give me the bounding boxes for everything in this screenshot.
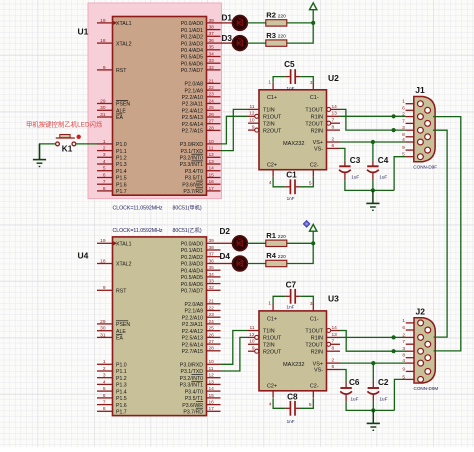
wire R1 to power rail [287, 242, 313, 244]
svg-text:P1.5: P1.5 [116, 396, 127, 402]
svg-text:RST: RST [116, 68, 127, 74]
svg-text:C2-: C2- [310, 384, 319, 390]
svg-text:8: 8 [402, 132, 405, 138]
svg-text:P0.7/AD7: P0.7/AD7 [181, 289, 203, 295]
svg-text:26: 26 [209, 332, 215, 338]
svg-text:17: 17 [209, 406, 215, 412]
svg-text:VS+: VS+ [313, 140, 323, 146]
svg-text:R1OUT: R1OUT [263, 115, 282, 121]
svg-text:1: 1 [103, 359, 106, 365]
svg-text:38: 38 [209, 25, 215, 31]
svg-text:P1.6: P1.6 [116, 403, 127, 409]
junction [392, 349, 396, 353]
svg-text:P2.6/A14: P2.6/A14 [182, 122, 203, 128]
svg-text:23: 23 [209, 312, 215, 318]
svg-text:P0.6/AD6: P0.6/AD6 [181, 61, 203, 67]
svg-text:P2.1/A9: P2.1/A9 [185, 88, 204, 94]
svg-text:36: 36 [209, 258, 215, 264]
svg-text:VS-: VS- [314, 147, 323, 153]
svg-text:24: 24 [209, 319, 215, 325]
svg-text:XTAL1: XTAL1 [116, 242, 132, 248]
wire D2 to R1 [247, 242, 266, 244]
svg-text:P2.6/A14: P2.6/A14 [182, 342, 203, 348]
wire VS+ tap to C2 [372, 363, 374, 382]
LED D2 [220, 227, 248, 251]
wire U2 pin1 to C5 [273, 77, 286, 83]
svg-text:XTAL2: XTAL2 [116, 262, 132, 268]
junction [371, 361, 375, 365]
svg-text:D1: D1 [222, 13, 233, 22]
wire J1 pin3 to J2 pin2 [433, 130, 447, 337]
svg-text:R1IN: R1IN [311, 336, 323, 342]
svg-text:T1IN: T1IN [263, 329, 275, 335]
svg-text:2: 2 [103, 146, 106, 152]
svg-text:XTAL1: XTAL1 [116, 21, 132, 27]
wire ground rail bottom [346, 402, 394, 411]
svg-text:9: 9 [402, 366, 405, 372]
svg-text:R2OUT: R2OUT [263, 349, 282, 355]
wire U3 VS+ to J2 pin4 [340, 362, 406, 364]
svg-text:P0.4/AD4: P0.4/AD4 [181, 48, 203, 54]
junction [371, 408, 375, 412]
ground [367, 410, 380, 430]
svg-text:1: 1 [402, 99, 405, 105]
microcontroller U4 80C51 [78, 226, 221, 416]
svg-text:1: 1 [268, 79, 271, 85]
svg-text:P1.7: P1.7 [116, 189, 127, 195]
wire R4 to power [287, 231, 313, 263]
junction [311, 21, 315, 25]
svg-text:14: 14 [332, 104, 338, 110]
svg-text:P1.4: P1.4 [116, 389, 127, 395]
svg-text:1uF: 1uF [380, 396, 388, 401]
svg-text:6: 6 [103, 172, 106, 178]
wire U2 pin4 to C1 [273, 177, 285, 187]
svg-text:2: 2 [332, 136, 335, 142]
svg-text:220: 220 [278, 34, 286, 40]
svg-text:MAX232: MAX232 [283, 362, 304, 368]
wire C8 to U3 pin5 [300, 398, 314, 408]
svg-text:5: 5 [103, 386, 106, 392]
push button K1 [56, 135, 81, 154]
svg-text:P0.2/AD2: P0.2/AD2 [181, 35, 203, 41]
wire D1 to R2 [247, 22, 266, 24]
svg-text:PSEN: PSEN [116, 102, 130, 108]
svg-text:14: 14 [209, 386, 215, 392]
no-ERC marker [303, 221, 310, 228]
wire K1 to U1 P1.0 [76, 143, 97, 145]
svg-text:P3.4/T0: P3.4/T0 [185, 389, 203, 395]
svg-text:9: 9 [252, 125, 255, 131]
svg-text:3: 3 [103, 373, 106, 379]
svg-text:P2.7/A15: P2.7/A15 [182, 349, 203, 355]
svg-text:P0.0/AD0: P0.0/AD0 [181, 242, 203, 248]
svg-text:25: 25 [209, 326, 215, 332]
svg-text:1uF: 1uF [351, 396, 359, 401]
svg-text:10: 10 [209, 359, 215, 365]
wire J1 pin5 to ground [394, 157, 406, 191]
svg-text:P3.7/RD: P3.7/RD [183, 410, 203, 416]
svg-text:C7: C7 [286, 281, 297, 290]
svg-text:3: 3 [310, 301, 313, 307]
ground [33, 144, 46, 167]
svg-text:12: 12 [209, 373, 215, 379]
svg-text:P3.4/T0: P3.4/T0 [185, 169, 203, 175]
svg-text:31: 31 [100, 112, 106, 118]
svg-text:11: 11 [209, 146, 214, 152]
svg-text:32: 32 [209, 285, 215, 291]
wire U1 P3.0 to U2 R1OUT [221, 116, 249, 144]
wire U4 P3.0 to U3 T1IN [221, 331, 249, 365]
svg-text:16: 16 [209, 400, 215, 406]
svg-text:9: 9 [402, 145, 405, 151]
svg-text:C8: C8 [287, 392, 298, 401]
svg-text:P2.2/A10: P2.2/A10 [182, 315, 203, 321]
svg-text:4: 4 [103, 379, 106, 385]
svg-text:4: 4 [269, 180, 272, 186]
svg-text:34: 34 [209, 272, 215, 278]
svg-text:26: 26 [209, 112, 215, 118]
wire P0.3 to D3 [221, 42, 233, 44]
svg-text:12: 12 [209, 152, 215, 158]
svg-text:11: 11 [250, 104, 255, 110]
svg-text:P0.5/AD5: P0.5/AD5 [181, 55, 203, 61]
wire K1 to ground [40, 144, 56, 160]
svg-text:33: 33 [209, 279, 215, 285]
svg-text:13: 13 [332, 332, 338, 338]
svg-text:C5: C5 [284, 60, 295, 69]
svg-text:P3.0/RXD: P3.0/RXD [180, 363, 203, 369]
svg-text:35: 35 [209, 45, 215, 51]
svg-text:P0.5/AD5: P0.5/AD5 [181, 275, 203, 281]
svg-text:P2.1/A9: P2.1/A9 [185, 309, 204, 315]
svg-text:5: 5 [309, 402, 312, 408]
svg-text:CLOCK=11.0592MHz: CLOCK=11.0592MHz [113, 206, 163, 212]
svg-text:P1.3: P1.3 [116, 162, 127, 168]
svg-text:P3.3/INT1: P3.3/INT1 [180, 162, 203, 168]
svg-text:甲机按键控制乙机LED闪烁: 甲机按键控制乙机LED闪烁 [26, 119, 103, 128]
svg-text:P0.4/AD4: P0.4/AD4 [181, 268, 203, 274]
svg-text:4: 4 [103, 159, 106, 165]
LED D3 [222, 34, 248, 51]
capacitor C1 [285, 171, 300, 201]
svg-text:33: 33 [209, 58, 215, 64]
svg-text:28: 28 [209, 346, 215, 352]
capacitor C5 [284, 60, 300, 91]
svg-text:T1IN: T1IN [263, 108, 275, 114]
IC U3 MAX232 [248, 294, 340, 408]
svg-text:16: 16 [209, 179, 215, 185]
wire U2 VS+ to J1 pin4 [340, 141, 406, 143]
svg-text:C1-: C1- [310, 95, 319, 101]
wire P0.0 to D1 [221, 22, 233, 24]
svg-text:P0.2/AD2: P0.2/AD2 [181, 255, 203, 261]
svg-text:39: 39 [209, 18, 215, 24]
svg-text:2: 2 [332, 358, 335, 364]
svg-text:C2-: C2- [310, 162, 319, 168]
power terminal [310, 224, 317, 231]
wire U3 VS- to C6 [340, 370, 346, 383]
svg-text:R2: R2 [266, 11, 276, 20]
svg-text:U2: U2 [328, 73, 339, 83]
svg-text:9: 9 [103, 285, 106, 291]
capacitor C7 [286, 281, 301, 310]
svg-text:10: 10 [209, 139, 215, 145]
svg-text:14: 14 [332, 325, 338, 331]
svg-text:5: 5 [103, 166, 106, 172]
microcontroller U1 80C51 [78, 17, 221, 212]
svg-text:24: 24 [209, 98, 215, 104]
LED D4 [220, 252, 248, 271]
wire C1 to U2 pin5 [300, 177, 314, 187]
wire U3 T1OUT to J2 pin3 [340, 331, 406, 352]
svg-text:EA: EA [116, 336, 123, 342]
svg-text:7: 7 [332, 339, 335, 345]
svg-text:1uF: 1uF [351, 175, 359, 180]
svg-text:C2+: C2+ [267, 384, 277, 390]
selection highlight around U1 [88, 3, 222, 199]
svg-text:CONN-D9M: CONN-D9M [414, 386, 439, 391]
wire J1 pin2 to J2 pin3 [433, 117, 461, 351]
junction [392, 114, 396, 118]
svg-text:K1: K1 [62, 145, 73, 154]
wire U1 P3.1 to U2 T1IN [221, 109, 249, 150]
svg-text:11: 11 [209, 366, 214, 372]
capacitor C2 [367, 378, 389, 402]
svg-text:31: 31 [100, 332, 106, 338]
svg-text:7: 7 [332, 118, 335, 124]
svg-text:T1OUT: T1OUT [305, 108, 323, 114]
svg-text:P0.1/AD1: P0.1/AD1 [181, 248, 203, 254]
IC U2 MAX232 [248, 73, 340, 187]
svg-text:1nF: 1nF [287, 196, 295, 201]
svg-text:28: 28 [209, 125, 215, 131]
svg-text:T1OUT: T1OUT [305, 329, 323, 335]
svg-text:19: 19 [100, 238, 106, 244]
svg-text:VS+: VS+ [313, 361, 323, 367]
svg-text:P1.5: P1.5 [116, 176, 127, 182]
wire U3 pin4 to C8 [273, 398, 285, 408]
svg-text:15: 15 [209, 172, 215, 178]
svg-text:C1-: C1- [310, 316, 319, 322]
svg-text:P2.0/A8: P2.0/A8 [185, 82, 204, 88]
svg-text:7: 7 [402, 118, 405, 124]
svg-text:12: 12 [249, 111, 255, 117]
svg-text:T2IN: T2IN [263, 121, 275, 127]
svg-text:C2+: C2+ [267, 162, 277, 168]
svg-text:EA: EA [116, 115, 123, 121]
svg-text:12: 12 [249, 332, 255, 338]
svg-text:80C51(乙机): 80C51(乙机) [173, 226, 202, 234]
svg-text:D3: D3 [222, 34, 233, 43]
svg-text:37: 37 [209, 252, 215, 258]
wire C4 to ground rail [372, 180, 374, 190]
svg-text:7: 7 [103, 400, 106, 406]
svg-text:23: 23 [209, 92, 215, 98]
svg-text:R4: R4 [266, 251, 276, 260]
svg-text:6: 6 [402, 105, 405, 111]
junction [371, 188, 375, 192]
wire U3 pin1 to C7 [273, 296, 286, 304]
svg-text:R1IN: R1IN [311, 115, 323, 121]
svg-text:C1+: C1+ [267, 316, 277, 322]
svg-text:VS-: VS- [314, 368, 323, 374]
svg-text:9: 9 [103, 65, 106, 71]
wire U4 P0.3 to D4 [221, 263, 233, 265]
svg-text:17: 17 [209, 186, 215, 192]
wire U3 R1IN to J2 pin2 [340, 336, 406, 338]
svg-text:T2OUT: T2OUT [305, 121, 323, 127]
svg-text:C1: C1 [286, 171, 297, 180]
svg-text:30: 30 [100, 105, 106, 111]
wire R2 to power rail [287, 22, 313, 24]
svg-text:P1.1: P1.1 [116, 369, 127, 375]
svg-text:C6: C6 [349, 378, 360, 387]
svg-text:39: 39 [209, 238, 215, 244]
svg-text:P1.1: P1.1 [116, 149, 127, 155]
svg-text:8: 8 [103, 186, 106, 192]
resistor R1 [266, 231, 287, 247]
svg-text:P0.0/AD0: P0.0/AD0 [181, 21, 203, 27]
svg-text:220: 220 [278, 234, 286, 240]
svg-text:13: 13 [332, 111, 338, 117]
svg-text:PSEN: PSEN [116, 322, 130, 328]
svg-text:P0.7/AD7: P0.7/AD7 [181, 68, 203, 74]
svg-text:P2.5/A13: P2.5/A13 [182, 115, 203, 121]
svg-text:2: 2 [103, 366, 106, 372]
capacitor C3 [339, 156, 361, 180]
svg-text:P2.0/A8: P2.0/A8 [185, 302, 204, 308]
svg-text:7: 7 [402, 339, 405, 345]
capacitor C4 [367, 156, 389, 180]
svg-text:R1OUT: R1OUT [263, 336, 282, 342]
svg-text:C1+: C1+ [267, 95, 277, 101]
svg-text:5: 5 [309, 181, 312, 187]
capacitor C6 [340, 378, 360, 402]
power terminal [310, 3, 317, 10]
svg-text:J1: J1 [415, 85, 425, 95]
svg-text:29: 29 [100, 98, 106, 104]
svg-text:P3.7/RD: P3.7/RD [183, 189, 203, 195]
svg-text:7: 7 [103, 179, 106, 185]
svg-text:P2.3/A11: P2.3/A11 [182, 102, 203, 108]
svg-text:R2IN: R2IN [311, 128, 323, 134]
svg-text:13: 13 [209, 379, 215, 385]
svg-text:25: 25 [209, 105, 215, 111]
svg-text:P1.6: P1.6 [116, 182, 127, 188]
svg-text:P2.7/A15: P2.7/A15 [182, 129, 203, 135]
svg-text:8: 8 [402, 353, 405, 359]
svg-text:CONN-D9F: CONN-D9F [413, 165, 437, 170]
svg-text:R3: R3 [266, 31, 276, 40]
svg-text:38: 38 [209, 245, 215, 251]
resistor R3 [266, 31, 287, 47]
svg-text:1nF: 1nF [287, 86, 295, 91]
svg-text:27: 27 [209, 119, 215, 125]
svg-text:P1.7: P1.7 [116, 410, 127, 416]
svg-text:220: 220 [278, 254, 286, 260]
wire C5 to U2 pin3 [300, 77, 313, 83]
LED D1 [222, 13, 248, 30]
svg-text:U4: U4 [78, 251, 89, 261]
svg-text:MAX232: MAX232 [283, 141, 304, 147]
svg-text:P1.0: P1.0 [116, 363, 127, 369]
wire U2 VS- to C3 [340, 148, 345, 161]
svg-text:P2.4/A12: P2.4/A12 [182, 109, 203, 115]
connector J1 [402, 85, 437, 169]
svg-text:37: 37 [209, 31, 215, 37]
connector J2 [402, 307, 438, 391]
svg-text:1: 1 [402, 318, 405, 324]
svg-text:P0.6/AD6: P0.6/AD6 [181, 282, 203, 288]
svg-text:6: 6 [332, 364, 335, 370]
svg-text:J2: J2 [416, 307, 426, 317]
svg-text:U1: U1 [78, 27, 89, 37]
svg-text:C3: C3 [350, 156, 361, 165]
svg-text:P3.0/RXD: P3.0/RXD [180, 142, 203, 148]
svg-text:P1.3: P1.3 [116, 383, 127, 389]
svg-text:9: 9 [252, 346, 255, 352]
junction [392, 128, 396, 132]
svg-text:29: 29 [100, 319, 106, 325]
svg-text:19: 19 [100, 18, 106, 24]
svg-text:P2.3/A11: P2.3/A11 [182, 322, 203, 328]
resistor R2 [266, 11, 287, 27]
svg-text:3: 3 [103, 152, 106, 158]
svg-text:1uF: 1uF [379, 175, 387, 180]
svg-text:R2IN: R2IN [311, 349, 323, 355]
svg-text:8: 8 [332, 346, 335, 352]
svg-text:P3.3/INT1: P3.3/INT1 [180, 383, 203, 389]
svg-text:80C51(甲机): 80C51(甲机) [173, 204, 202, 212]
svg-text:T2OUT: T2OUT [305, 343, 323, 349]
svg-text:P2.4/A12: P2.4/A12 [182, 329, 203, 335]
junction [392, 335, 396, 339]
wire U2 T1OUT to J1 pin3 [340, 109, 406, 130]
svg-text:D2: D2 [220, 227, 231, 236]
svg-text:21: 21 [209, 78, 215, 84]
svg-text:10: 10 [249, 339, 255, 345]
wire C2 to ground rail [372, 402, 374, 411]
svg-text:R2OUT: R2OUT [263, 128, 282, 134]
svg-text:30: 30 [100, 326, 106, 332]
svg-text:P1.2: P1.2 [116, 156, 127, 162]
svg-text:8: 8 [103, 406, 106, 412]
wire VS+ tap to C4 [372, 142, 374, 161]
svg-text:35: 35 [209, 265, 215, 271]
svg-text:6: 6 [332, 143, 335, 149]
svg-text:13: 13 [209, 159, 215, 165]
ground [366, 190, 379, 210]
junction [371, 140, 375, 144]
svg-text:CLOCK=11.0592MHz: CLOCK=11.0592MHz [113, 228, 163, 234]
svg-text:1: 1 [103, 139, 106, 145]
svg-text:D4: D4 [220, 252, 231, 261]
svg-text:P2.2/A10: P2.2/A10 [182, 95, 203, 101]
svg-text:15: 15 [209, 393, 215, 399]
svg-text:1: 1 [268, 300, 271, 306]
svg-text:220: 220 [278, 13, 286, 19]
svg-text:6: 6 [103, 393, 106, 399]
resistor R4 [266, 251, 287, 266]
svg-text:P0.3/AD3: P0.3/AD3 [181, 41, 203, 47]
svg-text:P0.3/AD3: P0.3/AD3 [181, 262, 203, 268]
wire R3 to power [287, 10, 313, 43]
svg-text:21: 21 [209, 299, 215, 305]
svg-text:6: 6 [402, 325, 405, 331]
svg-text:P1.0: P1.0 [116, 142, 127, 148]
wire U4 P3.1 to U3 R1OUT [221, 337, 249, 371]
